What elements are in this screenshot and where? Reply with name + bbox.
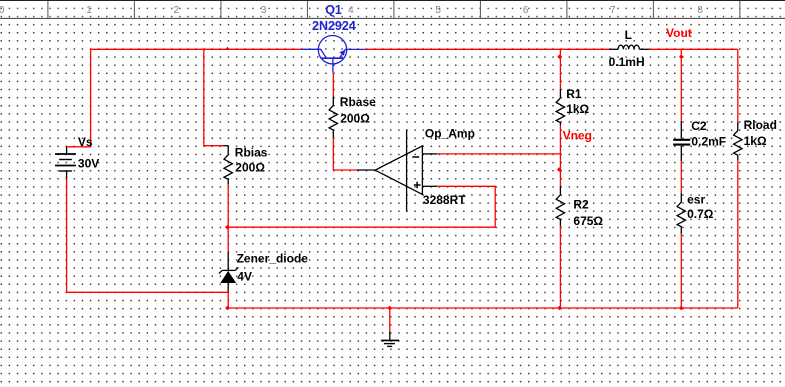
svg-text:Rbias: Rbias [235, 146, 268, 160]
svg-text:675Ω: 675Ω [573, 214, 603, 228]
svg-text:Vout: Vout [666, 26, 692, 40]
svg-text:7: 7 [610, 5, 616, 16]
svg-text:0: 0 [0, 5, 5, 16]
svg-text:0.1mH: 0.1mH [609, 55, 645, 69]
svg-text:R2: R2 [573, 198, 589, 212]
svg-text:2: 2 [174, 5, 180, 16]
svg-text:Q1: Q1 [325, 3, 342, 17]
svg-text:Rload: Rload [744, 118, 777, 132]
svg-text:1: 1 [86, 5, 92, 16]
svg-text:Vneg: Vneg [563, 128, 592, 142]
svg-text:4V: 4V [237, 270, 252, 284]
svg-text:2N2924: 2N2924 [312, 19, 356, 33]
svg-text:Zener_diode: Zener_diode [237, 252, 309, 266]
svg-text:8: 8 [697, 5, 703, 16]
svg-text:200Ω: 200Ω [340, 112, 370, 126]
svg-text:Rbase: Rbase [340, 95, 376, 109]
svg-text:Vs: Vs [78, 135, 93, 149]
svg-text:4: 4 [348, 5, 354, 16]
svg-text:200Ω: 200Ω [235, 160, 265, 174]
svg-text:3: 3 [261, 5, 267, 16]
svg-text:L: L [625, 28, 632, 42]
svg-text:R1: R1 [566, 87, 582, 101]
svg-text:30V: 30V [78, 156, 99, 170]
svg-text:0.2mF: 0.2mF [691, 134, 726, 148]
svg-text:Op_Amp: Op_Amp [425, 126, 475, 140]
svg-text:6: 6 [523, 5, 529, 16]
svg-text:3288RT: 3288RT [423, 193, 466, 207]
svg-text:0.7Ω: 0.7Ω [687, 207, 714, 221]
svg-text:5: 5 [435, 5, 441, 16]
svg-text:C2: C2 [691, 119, 707, 133]
svg-text:esr: esr [687, 193, 705, 207]
svg-text:1kΩ: 1kΩ [566, 102, 589, 116]
svg-text:1kΩ: 1kΩ [744, 134, 767, 148]
